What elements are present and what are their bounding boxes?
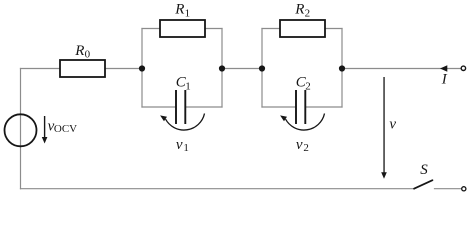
svg-text:2: 2 — [305, 80, 311, 92]
svg-text:v: v — [389, 117, 396, 133]
wire block1 bottom branch — [142, 106, 222, 108]
wire left vertical — [20, 69, 22, 189]
svg-text:v: v — [296, 137, 303, 153]
resistor R1 — [160, 20, 205, 37]
switch S blade — [414, 180, 433, 189]
svg-text:OCV: OCV — [54, 123, 77, 135]
node A junction dot — [139, 65, 145, 71]
svg-text:R: R — [294, 2, 304, 18]
wire R0 to node A — [105, 68, 142, 70]
v2 arc arrow — [286, 114, 325, 131]
terminal top — [461, 66, 465, 70]
wire bottom horizontal — [21, 188, 415, 190]
wire block1 top branch — [142, 28, 222, 30]
capacitor C2 — [296, 90, 305, 124]
svg-text:2: 2 — [303, 142, 309, 154]
svg-text:2: 2 — [305, 7, 311, 19]
wire switch to terminal — [435, 188, 462, 190]
node D junction dot — [339, 65, 345, 71]
svg-text:1: 1 — [185, 7, 191, 19]
wire node D to terminal — [342, 68, 461, 70]
resistor R2 — [280, 20, 325, 37]
voltage source circle vOCV — [5, 114, 37, 146]
node C junction dot — [259, 65, 265, 71]
wire block2 left vertical — [261, 29, 263, 108]
wire block1 right vertical — [221, 29, 223, 108]
svg-text:S: S — [420, 162, 428, 178]
wire block2 top branch — [262, 28, 342, 30]
svg-text:v: v — [176, 137, 183, 153]
svg-text:I: I — [441, 72, 448, 88]
terminal bottom — [462, 187, 466, 191]
resistor R0 — [60, 60, 105, 77]
vOCV arrow — [42, 116, 48, 144]
svg-text:1: 1 — [185, 80, 191, 92]
v arrow vertical — [381, 77, 387, 179]
svg-text:0: 0 — [85, 49, 91, 61]
current arrow I — [440, 65, 447, 71]
v1 arc arrow — [166, 114, 205, 131]
capacitor C1 — [176, 90, 185, 124]
wire block1 left vertical — [141, 29, 143, 108]
wire node B to node C — [222, 68, 262, 70]
wire top-left horizontal — [21, 68, 61, 70]
svg-text:1: 1 — [183, 142, 189, 154]
wire block2 right vertical — [341, 29, 343, 108]
svg-text:R: R — [74, 43, 84, 59]
svg-text:R: R — [174, 2, 184, 18]
wire block2 bottom branch — [262, 106, 342, 108]
node B junction dot — [219, 65, 225, 71]
